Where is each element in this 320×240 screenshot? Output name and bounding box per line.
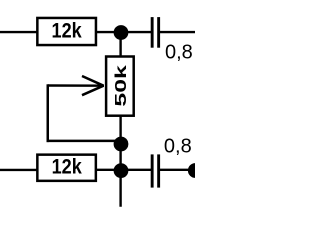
capacitor 0,8 (bottom) xyxy=(151,154,160,187)
wire capacitor to right node (bottom) xyxy=(160,169,191,171)
resistor 12k (bottom) xyxy=(37,155,96,181)
capacitor 0,8 (top) xyxy=(151,17,160,48)
node junction dot (bottom right edge) xyxy=(188,163,203,178)
svg-text:50k: 50k xyxy=(113,65,130,107)
wire wiper loop: left vertical xyxy=(47,84,50,142)
node junction dot (below potentiometer) xyxy=(114,137,129,152)
wiper arrow of potentiometer xyxy=(48,76,104,95)
wire resistor to capacitor (top) xyxy=(95,31,152,33)
wire capacitor to right edge (top) xyxy=(160,31,196,33)
wire resistor to capacitor (bottom) xyxy=(95,169,152,171)
wire top-left input to resistor xyxy=(0,31,39,33)
potentiometer 50k body xyxy=(106,57,134,116)
wire wiper loop: bottom horizontal to node xyxy=(47,140,118,143)
svg-text:0,8: 0,8 xyxy=(164,136,192,158)
svg-text:12k: 12k xyxy=(52,155,83,179)
svg-text:12k: 12k xyxy=(52,19,83,43)
node junction dot (top) xyxy=(114,25,129,40)
svg-text:0,8: 0,8 xyxy=(165,42,193,64)
node junction dot (bottom wire) xyxy=(114,163,129,178)
resistor 12k (top) xyxy=(37,18,96,45)
wire bottom-left input to resistor xyxy=(0,169,39,171)
wire potentiometer bottom down to bottom stub xyxy=(119,115,121,207)
wire top dot down to potentiometer xyxy=(119,33,121,58)
